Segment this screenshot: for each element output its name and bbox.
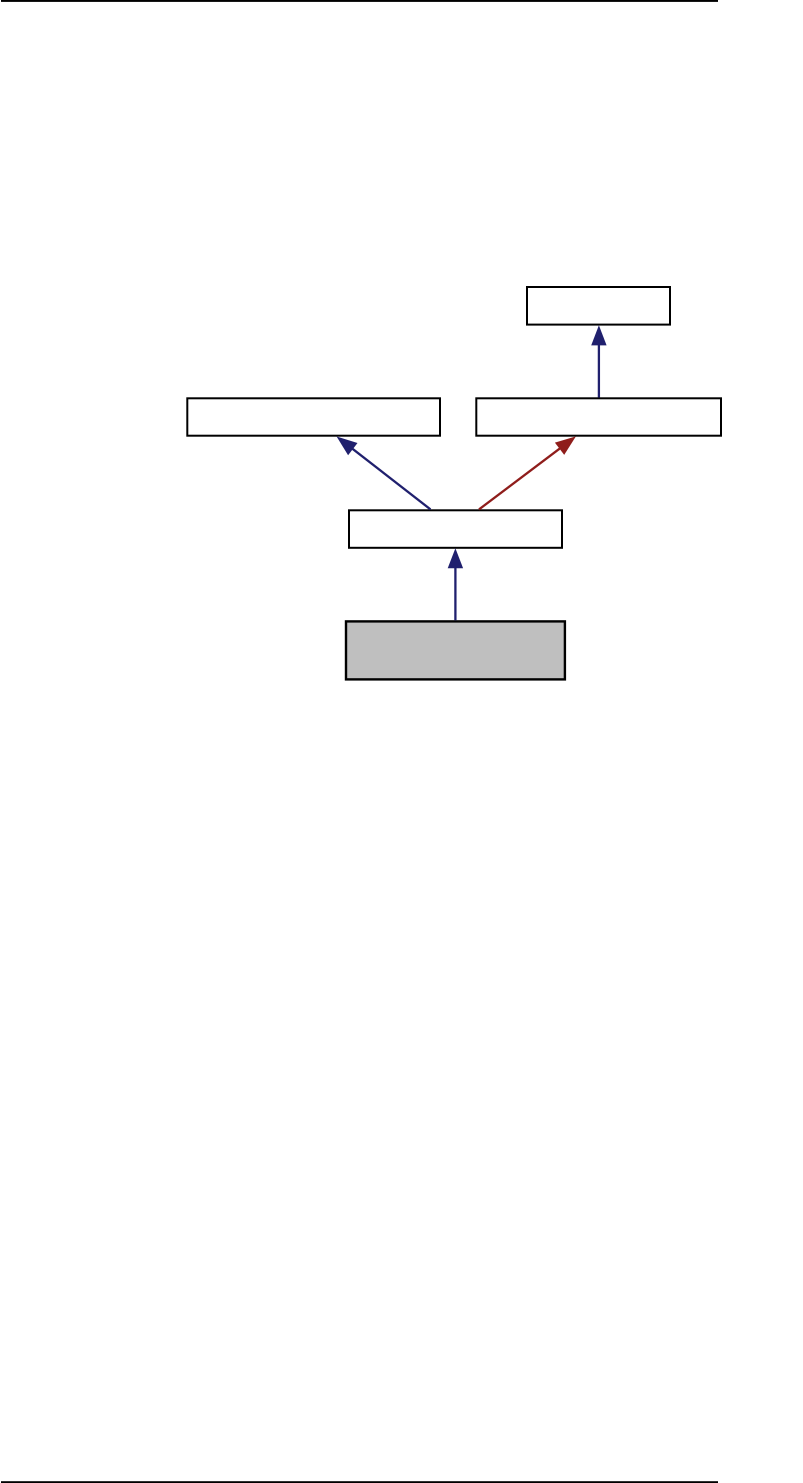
edge arrow blue vertical (middle-right to top-right) stem bbox=[598, 344, 600, 398]
edge arrow blue vertical (gray to center) head bbox=[448, 548, 463, 568]
edge arrow red diagonal (center to middle-right) stem bbox=[479, 446, 563, 509]
edge arrow blue vertical (middle-right to top-right) head bbox=[591, 325, 606, 345]
edge arrow red diagonal (center to middle-right) head bbox=[555, 436, 576, 455]
footer rule bbox=[1, 1481, 718, 1483]
node box middle-left (empty class node) bbox=[187, 398, 440, 435]
header rule bbox=[1, 0, 718, 2]
edge arrow blue vertical (gray to center) stem bbox=[454, 567, 456, 620]
node box center (empty class node) bbox=[349, 510, 562, 548]
edge arrow blue diagonal (center to middle-left) stem bbox=[349, 446, 431, 510]
edge arrow blue diagonal (center to middle-left) head bbox=[337, 437, 358, 456]
node box bottom gray (current class node, grey75 fill) bbox=[346, 621, 565, 679]
node box top-right (empty class node) bbox=[527, 287, 670, 325]
node box middle-right (empty class node) bbox=[476, 398, 721, 435]
